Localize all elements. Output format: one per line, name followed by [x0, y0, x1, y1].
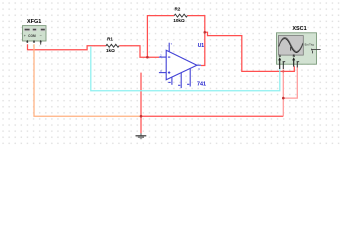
- XFG1 pin COM: [33, 40, 35, 43]
- scope screen sine wave: [279, 39, 303, 53]
- scope pin A+: [278, 57, 281, 69]
- oscilloscope XSC1 body: [277, 33, 317, 64]
- junction at op-amp output / R2 / scope tap: [204, 31, 207, 34]
- svg-text:U1: U1: [198, 43, 205, 49]
- wire R2 left leg: [147, 16, 174, 58]
- svg-text:Ext Trig: Ext Trig: [305, 43, 315, 47]
- function generator XFG1 body: [23, 26, 47, 41]
- op-amp U1 (741): [159, 43, 201, 88]
- wire ground node to scope minus terminals: [141, 115, 283, 117]
- svg-text:1kΩ: 1kΩ: [106, 48, 115, 53]
- wire crossing darker spot: [282, 70, 284, 72]
- svg-text:COM: COM: [28, 34, 36, 38]
- wire XFG1 COM (orange): [34, 44, 140, 116]
- svg-text:741: 741: [197, 81, 206, 87]
- XFG1 pin -: [40, 40, 42, 44]
- wire output to scope B+: [205, 32, 294, 71]
- junction at R2 left leg and inverting input: [146, 56, 149, 59]
- svg-text:−: −: [40, 34, 42, 38]
- svg-text:10kΩ: 10kΩ: [173, 18, 185, 23]
- junction A-/B- net: [282, 97, 285, 100]
- wire R1 to op-amp inverting input: [119, 46, 159, 57]
- scope pin B+: [292, 57, 295, 66]
- svg-text:XSC1: XSC1: [292, 26, 306, 32]
- svg-text:R2: R2: [174, 6, 180, 11]
- scope pin B-: [297, 62, 300, 68]
- wire op-amp + input to ground node: [140, 73, 142, 117]
- resistor R2: [174, 14, 187, 17]
- scope pin A-: [283, 62, 286, 69]
- wire scope B- to ground net (salmon): [283, 67, 297, 98]
- ground: [136, 133, 147, 139]
- svg-text:XFG1: XFG1: [27, 19, 41, 25]
- wire ground node to ground symbol: [140, 116, 142, 133]
- svg-text:+: +: [24, 34, 26, 38]
- wire XFG1 plus to R1 (red): [28, 44, 106, 50]
- wire scope A- to ground net (salmon): [282, 69, 284, 116]
- resistor R1: [106, 44, 119, 47]
- wire R2 right leg to op-amp output: [187, 16, 205, 66]
- wire input tap to scope A+ (cyan): [91, 46, 280, 90]
- junction at ground node: [140, 115, 143, 118]
- svg-text:R1: R1: [107, 36, 113, 41]
- XFG1 pin +: [26, 40, 28, 43]
